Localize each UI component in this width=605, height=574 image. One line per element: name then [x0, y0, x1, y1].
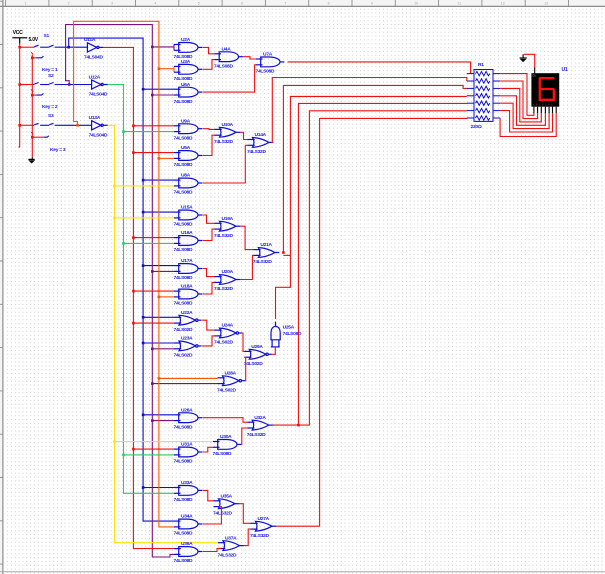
svg-text:74LS08D: 74LS08D	[174, 99, 193, 105]
svg-text:U31A: U31A	[181, 442, 193, 448]
svg-text:74LS02D: 74LS02D	[214, 340, 233, 346]
wire U3A out to U4A	[203, 60, 215, 70]
wire U9A out to U10A	[203, 128, 215, 131]
svg-text:74LS04D: 74LS04D	[89, 92, 108, 98]
wire throw S3	[31, 132, 33, 134]
AND gate U16A	[174, 236, 202, 246]
NOR gate U24A	[215, 328, 243, 338]
wire net A (blue bus)	[69, 38, 174, 521]
svg-text:U19A: U19A	[222, 216, 234, 222]
svg-text:U9A: U9A	[181, 118, 191, 124]
svg-text:CA: CA	[532, 75, 536, 78]
wire U15A out to U19A	[203, 215, 215, 223]
wire U17A out to U20A	[203, 269, 215, 277]
OR gate U19A	[215, 221, 241, 231]
wire U5A out to U10A	[203, 135, 215, 155]
svg-text:U29A: U29A	[251, 344, 263, 350]
AND gate U9A	[174, 124, 202, 134]
wire S2 to U12A	[57, 84, 91, 86]
svg-text:74LS08D: 74LS08D	[174, 222, 193, 228]
svg-text:U10A: U10A	[222, 122, 234, 128]
wire U26A out to U32A	[203, 418, 247, 423]
svg-text:74LS32D: 74LS32D	[247, 149, 266, 155]
wire U4A out to U7A	[243, 57, 256, 59]
svg-text:8: 8	[328, 2, 330, 6]
wire throw S2	[31, 90, 33, 92]
svg-text:74LS08D: 74LS08D	[174, 76, 193, 82]
wire segment f: U32A out to R1 pin6	[298, 111, 466, 425]
wire U35A out to U27A	[239, 504, 250, 524]
wire U22A out to U24A	[202, 320, 214, 330]
svg-text:U33A: U33A	[181, 480, 193, 486]
wire U2A out to U4A	[203, 47, 215, 53]
svg-text:5: 5	[198, 2, 200, 6]
wire R1 pin2 to display pin B	[500, 81, 537, 119]
svg-text:U28A: U28A	[225, 370, 237, 376]
wire R1 pin4 to display pin D	[500, 96, 545, 126]
svg-text:74LS02D: 74LS02D	[244, 361, 263, 367]
svg-text:S3: S3	[48, 113, 54, 119]
svg-text:74LS02D: 74LS02D	[174, 353, 193, 359]
wire U33A out to U35A	[203, 490, 214, 500]
wire ground to display	[524, 54, 535, 67]
svg-text:74LS08D: 74LS08D	[174, 459, 193, 465]
svg-text:U32A: U32A	[254, 415, 266, 421]
switch S3	[33, 124, 34, 126]
svg-text:U30A: U30A	[220, 434, 232, 440]
svg-text:U35A: U35A	[221, 493, 233, 499]
svg-text:10: 10	[414, 2, 418, 6]
NOR gate U29A	[244, 349, 272, 359]
OR gate U37A	[218, 541, 244, 551]
AND gate U17A	[174, 264, 202, 274]
AND gate U30A	[213, 440, 241, 450]
svg-text:74LS08D: 74LS08D	[174, 190, 193, 196]
svg-text:U16A: U16A	[181, 230, 193, 236]
wire U6A out to U7A	[203, 65, 256, 92]
power VCC	[12, 38, 27, 44]
display U1	[531, 73, 559, 107]
svg-text:74LS04D: 74LS04D	[84, 55, 103, 61]
wire segment a: U7A out to R1 pin1	[288, 62, 471, 74]
svg-text:U12A: U12A	[89, 74, 101, 80]
wire U16A out to U19A	[203, 229, 215, 240]
wire net B! (green bus)	[108, 85, 174, 494]
wire VCC to S2	[20, 84, 33, 86]
svg-text:U37A: U37A	[225, 535, 237, 541]
OR gate U27A	[251, 521, 277, 531]
svg-text:13: 13	[544, 2, 548, 6]
wire VCC to S1	[20, 46, 33, 48]
wire U28A out to U29A	[244, 357, 245, 381]
AND gate U4A	[215, 52, 243, 62]
ground	[28, 157, 34, 163]
wire segment g: U27A out to R1 pin7	[276, 118, 466, 526]
OR gate U14A	[248, 138, 274, 148]
AND gate U2A	[174, 43, 202, 53]
AND gate U26A	[174, 413, 202, 423]
svg-text:220Ω: 220Ω	[471, 124, 482, 130]
AND gate U6A	[174, 87, 202, 97]
wire R1 pin6 to display pin F	[500, 111, 552, 132]
svg-text:U3A: U3A	[181, 59, 191, 65]
AND gate U15A	[174, 210, 202, 220]
wire R1 pin7 to display pin G	[500, 113, 556, 137]
inverter U11A	[87, 43, 103, 52]
NOR gate U28A	[218, 376, 246, 386]
switch S1	[33, 46, 34, 48]
wire U23A out to U24A	[202, 336, 214, 346]
svg-text:3: 3	[111, 2, 113, 6]
svg-text:6: 6	[241, 2, 243, 6]
wire net A! (red bus)	[103, 47, 181, 548]
svg-text:U15A: U15A	[181, 205, 193, 211]
svg-text:Key = 1: Key = 1	[42, 67, 58, 73]
svg-text:U1: U1	[562, 67, 568, 73]
wire net B (purple bus)	[66, 25, 174, 557]
NOR gate U22A	[174, 315, 202, 325]
wire ground bus	[31, 55, 33, 157]
svg-text:U23A: U23A	[181, 336, 193, 342]
wire R1 pin3 to display pin C	[500, 88, 541, 122]
svg-text:2: 2	[68, 2, 70, 6]
svg-text:U22A: U22A	[181, 310, 193, 316]
svg-text:11: 11	[458, 2, 462, 6]
svg-text:5.0V: 5.0V	[29, 37, 39, 43]
display pins	[534, 107, 556, 113]
wire VCC to S3	[20, 124, 33, 126]
wire U8A out to U14A	[203, 145, 248, 183]
AND gate U34A	[174, 519, 202, 529]
AND gate U31A	[174, 447, 202, 457]
svg-text:U7A: U7A	[263, 52, 273, 58]
svg-text:VCC: VCC	[13, 30, 24, 36]
svg-text:74LS08D: 74LS08D	[174, 531, 193, 537]
svg-text:74LS08D: 74LS08D	[174, 424, 193, 430]
svg-text:R1: R1	[478, 62, 484, 68]
wire segment b: U14A out to R1 pin2	[271, 78, 467, 143]
svg-text:1: 1	[25, 2, 27, 6]
svg-text:74LS02D: 74LS02D	[174, 327, 193, 333]
wire U37A out to U27A	[244, 529, 251, 546]
svg-text:U11A: U11A	[84, 37, 96, 43]
svg-text:A B C D E F G: A B C D E F G	[533, 102, 553, 106]
svg-text:U8A: U8A	[181, 173, 191, 179]
svg-text:74LS32D: 74LS32D	[213, 510, 232, 516]
svg-text:U21A: U21A	[260, 242, 272, 248]
svg-text:U20A: U20A	[222, 269, 234, 275]
NOR gate U23A	[174, 341, 202, 351]
svg-text:74LS32D: 74LS32D	[247, 432, 266, 438]
svg-text:74LS32D: 74LS32D	[218, 552, 237, 558]
AND gate U33A	[174, 486, 202, 496]
svg-text:74LS08D: 74LS08D	[174, 247, 193, 253]
svg-text:U26A: U26A	[181, 407, 193, 413]
wire R1 pin1 to display pin A	[500, 74, 534, 116]
svg-text:U14A: U14A	[255, 132, 267, 138]
svg-text:9: 9	[371, 2, 373, 6]
svg-text:12: 12	[501, 2, 505, 6]
svg-text:Key = 3: Key = 3	[50, 147, 66, 153]
svg-text:U5A: U5A	[181, 145, 191, 151]
wire U31A out to U30A	[203, 447, 213, 452]
resistor R1	[467, 70, 500, 122]
svg-text:74LS08D: 74LS08D	[174, 301, 193, 307]
OR gate U21A	[253, 248, 279, 258]
AND gate U8A	[174, 178, 202, 188]
wire U10A out to U14A	[240, 132, 247, 139]
wire U19A out to U21A	[240, 226, 253, 249]
wire U24A out to U29A	[242, 333, 244, 351]
svg-text:74LS08D: 74LS08D	[174, 162, 193, 168]
svg-text:74LS32D: 74LS32D	[250, 533, 269, 539]
AND gate U3A	[174, 64, 202, 74]
OR gate U10A	[215, 127, 241, 137]
svg-text:4: 4	[154, 2, 156, 6]
svg-text:U4A: U4A	[222, 46, 232, 52]
AND gate U7A	[256, 57, 284, 67]
svg-text:U2A: U2A	[181, 37, 191, 43]
svg-text:74LS04D: 74LS04D	[89, 132, 108, 138]
wire U34A out to U35A	[203, 507, 222, 524]
svg-text:Key = 2: Key = 2	[42, 104, 58, 110]
svg-text:S1: S1	[44, 33, 50, 39]
svg-text:74LS08D: 74LS08D	[174, 497, 193, 503]
svg-text:U36A: U36A	[181, 541, 193, 547]
OR gate U20A	[215, 275, 241, 285]
svg-text:74LS32D: 74LS32D	[214, 139, 233, 145]
svg-text:74LS08D: 74LS08D	[174, 135, 193, 141]
svg-text:74LS08D: 74LS08D	[214, 63, 233, 69]
svg-text:74LS08D: 74LS08D	[213, 451, 232, 457]
svg-text:7: 7	[284, 2, 286, 6]
wire VCC bus	[18, 44, 21, 148]
svg-text:74LS32D: 74LS32D	[253, 259, 272, 265]
OR gate U35A	[214, 499, 240, 509]
svg-text:74LS32D: 74LS32D	[214, 286, 233, 292]
wire U20A out to U21A	[240, 255, 253, 279]
AND gate U25A	[271, 322, 280, 347]
wire segment d: U25A to R1 pin4	[276, 96, 467, 319]
OR gate U32A	[247, 420, 273, 430]
wire R1 pin5 to display pin E	[500, 103, 549, 128]
inverter U13A	[92, 121, 108, 130]
svg-text:74LS08D: 74LS08D	[256, 69, 275, 75]
svg-text:U25A: U25A	[283, 325, 295, 331]
wire U30A out to U32A	[241, 428, 247, 444]
svg-text:U6A: U6A	[181, 82, 191, 88]
svg-text:74LS32D: 74LS32D	[214, 233, 233, 239]
wire S1 to U11A	[57, 46, 87, 48]
svg-text:74LS02D: 74LS02D	[217, 387, 236, 393]
svg-text:U27A: U27A	[258, 516, 270, 522]
AND gate U18A	[174, 289, 202, 299]
wire U29A out to U25A	[272, 347, 275, 354]
AND gate U36A	[174, 547, 202, 557]
svg-text:74LS08D: 74LS08D	[174, 558, 193, 564]
ground (display common)	[520, 54, 527, 61]
svg-text:U13A: U13A	[89, 115, 101, 121]
svg-text:U24A: U24A	[222, 323, 234, 329]
wire segment e: U32A out to R1 pin5	[273, 103, 467, 425]
svg-text:74LS08D: 74LS08D	[174, 275, 193, 281]
wire segment c: U21A out to R1 pin3	[283, 85, 467, 252]
wire U36A out to U37A	[203, 549, 221, 552]
wire throw S1	[31, 52, 33, 54]
svg-text:U17A: U17A	[181, 258, 193, 264]
inverter U12A	[92, 80, 108, 89]
wire net C! (yellow bus)	[108, 125, 218, 542]
svg-text:U18A: U18A	[181, 284, 193, 290]
wire net C (orange bus)	[74, 21, 174, 527]
svg-text:74LS08D: 74LS08D	[283, 331, 302, 337]
wire U18A out to U20A	[203, 282, 215, 294]
switch S2	[33, 84, 34, 86]
wire S3 to U13A	[57, 124, 91, 126]
svg-text:S2: S2	[48, 73, 54, 79]
svg-text:U34A: U34A	[181, 514, 193, 520]
AND gate U5A	[174, 151, 202, 161]
